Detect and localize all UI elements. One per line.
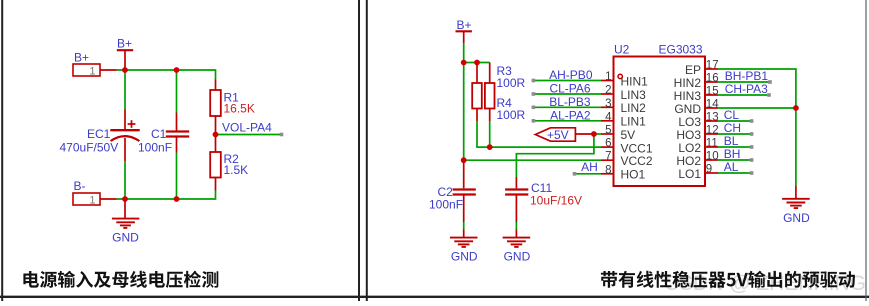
svg-text:CH-PA3: CH-PA3 <box>725 82 768 96</box>
resistor R1 <box>210 80 255 135</box>
RIGHT-PANEL <box>429 18 866 295</box>
svg-text:7: 7 <box>605 151 611 163</box>
junction (593.9,134) <box>591 131 597 137</box>
svg-text:EP: EP <box>685 63 701 77</box>
svg-text:B+: B+ <box>117 37 132 51</box>
label BL-PB3 pin3 wire <box>532 95 601 109</box>
svg-text:6: 6 <box>605 138 611 150</box>
svg-text:LO1: LO1 <box>678 167 701 181</box>
junction (795.9,108) <box>793 105 799 111</box>
junction (463.7,62.5) <box>461 60 467 66</box>
svg-text:LO2: LO2 <box>678 141 701 155</box>
svg-text:EG3033: EG3033 <box>659 43 703 57</box>
label CL pin13 wire <box>718 108 753 123</box>
svg-text:GND: GND <box>112 231 139 245</box>
junction (125,199) <box>122 196 128 202</box>
svg-text:HIN2: HIN2 <box>674 76 702 90</box>
resistor R3 <box>472 63 525 122</box>
svg-text:16.5K: 16.5K <box>224 102 255 116</box>
svg-text:100nF: 100nF <box>138 141 172 155</box>
svg-text:LIN2: LIN2 <box>621 101 647 115</box>
capacitor C2 <box>429 160 476 222</box>
wire C11 to gnd <box>515 222 517 230</box>
capacitor C1 <box>138 113 189 155</box>
svg-text:LO3: LO3 <box>678 115 701 129</box>
svg-text:CL-PA6: CL-PA6 <box>549 82 590 96</box>
resistor R4 <box>485 63 526 123</box>
node VOL-PA4 <box>216 121 284 137</box>
svg-text:100R: 100R <box>497 108 526 122</box>
wire 5V to C11 <box>516 134 594 177</box>
svg-text:CL: CL <box>724 108 740 122</box>
label BH-PB1 pin16 wire <box>718 69 772 84</box>
svg-text:VCC2: VCC2 <box>621 154 653 168</box>
pin numbers right 17-9 <box>706 60 719 176</box>
svg-text:LIN1: LIN1 <box>621 115 647 129</box>
svg-text:4: 4 <box>605 111 612 123</box>
svg-text:EC1: EC1 <box>87 127 111 141</box>
op IC U1 pins left stubs <box>601 81 614 174</box>
svg-text:LIN3: LIN3 <box>621 88 647 102</box>
wire B+ to pin7 VCC2 <box>464 159 601 161</box>
junction (125,70) <box>122 67 128 73</box>
svg-text:BH: BH <box>724 147 741 161</box>
label BL pin11 wire <box>718 134 753 149</box>
junction (215.5,134.5) <box>213 132 219 138</box>
connector J B- <box>73 179 117 206</box>
svg-text:B-: B- <box>74 179 86 193</box>
junction (489.7,147.1) <box>487 144 493 150</box>
svg-text:2: 2 <box>605 85 611 97</box>
svg-text:GND: GND <box>783 211 810 225</box>
LEFT-PANEL <box>23 37 283 288</box>
svg-text:100nF: 100nF <box>429 198 463 212</box>
svg-text:B+: B+ <box>74 51 89 65</box>
svg-text:1: 1 <box>89 65 95 77</box>
svg-text:HIN1: HIN1 <box>621 74 649 88</box>
wire pin14 GND <box>718 107 796 109</box>
resistor R2 <box>210 135 248 191</box>
svg-text:1: 1 <box>89 194 95 206</box>
junction (176.5,70) <box>174 67 180 73</box>
svg-text:100R: 100R <box>497 76 526 90</box>
svg-text:1: 1 <box>605 71 611 83</box>
svg-text:HO3: HO3 <box>676 128 701 142</box>
svg-text:GND: GND <box>674 102 701 116</box>
ground GND (left) <box>112 199 139 245</box>
junction (463.7,160.2) <box>461 157 467 163</box>
svg-text:470uF/50V: 470uF/50V <box>60 141 119 155</box>
svg-text:3: 3 <box>605 98 611 110</box>
svg-text:HO2: HO2 <box>676 154 701 168</box>
wire C1 top <box>176 70 178 113</box>
label CL-PA6 pin2 wire <box>532 82 601 96</box>
svg-text:U2: U2 <box>614 43 630 57</box>
svg-text:B+: B+ <box>457 18 472 32</box>
label AL pin9 wire <box>718 160 753 175</box>
connector J B+ <box>73 51 117 78</box>
wire R4 leg <box>489 121 491 147</box>
junction (477,62.5) <box>474 60 480 66</box>
label AH-PB0 pin1 wire <box>532 68 601 82</box>
label AH pin8 wire <box>573 160 601 176</box>
svg-text:5: 5 <box>605 125 611 137</box>
power symbol B+ (right) <box>456 18 472 43</box>
wire pin17 EP to gnd <box>718 69 796 186</box>
svg-text:HO1: HO1 <box>621 168 646 182</box>
svg-text:AH: AH <box>581 160 598 174</box>
ground GND (IC right) <box>782 186 810 225</box>
wire B+ vertical <box>463 43 465 160</box>
wire EC1 top <box>124 70 126 110</box>
wire R3 R4 to pin6 VCC1 <box>477 121 601 147</box>
wire bottom bus B- <box>117 191 216 200</box>
svg-text:BL-PB3: BL-PB3 <box>549 95 591 109</box>
IC U2 EG3033 body <box>614 43 706 187</box>
svg-text:AH-PB0: AH-PB0 <box>549 68 593 82</box>
pin names right <box>674 63 702 181</box>
svg-text:GND: GND <box>504 250 531 264</box>
capacitor C11 <box>505 177 582 222</box>
label BH pin10 wire <box>718 147 753 162</box>
svg-text:10uF/16V: 10uF/16V <box>530 194 582 208</box>
svg-text:+5V: +5V <box>547 128 569 142</box>
svg-text:8: 8 <box>605 164 611 176</box>
pins right stubs <box>705 69 718 173</box>
svg-text:BH-PB1: BH-PB1 <box>725 69 769 83</box>
wire C2 to gnd <box>463 222 465 230</box>
svg-text:C1: C1 <box>151 127 167 141</box>
svg-text:AL-PA2: AL-PA2 <box>550 108 591 122</box>
wire +5V to pin5 <box>594 133 601 135</box>
label CH pin12 wire <box>718 121 753 136</box>
svg-text:VOL-PA4: VOL-PA4 <box>222 121 272 135</box>
label CH-PA3 pin15 wire <box>718 82 771 97</box>
label AL-PA2 pin4 wire <box>532 108 601 122</box>
pin names left <box>621 74 653 181</box>
wire EC1 bottom <box>124 161 126 199</box>
pin numbers left 1-8 <box>605 71 612 176</box>
wire top bus B+ <box>117 70 216 80</box>
capacitor EC1 <box>60 110 140 162</box>
svg-text:BL: BL <box>724 134 739 148</box>
power label +5V <box>535 128 594 142</box>
caption left <box>23 271 218 288</box>
caption right <box>601 271 855 288</box>
ground GND (C11) <box>503 230 531 264</box>
wire B+ to R3 R4 <box>464 62 490 64</box>
svg-text:AL: AL <box>724 160 739 174</box>
junction (176.5,199) <box>174 196 180 202</box>
svg-text:HIN3: HIN3 <box>674 89 702 103</box>
wire C1 bottom <box>176 153 178 200</box>
svg-text:5V: 5V <box>621 128 636 142</box>
svg-text:1.5K: 1.5K <box>224 163 249 177</box>
power symbol B+ (left) <box>117 37 133 70</box>
ground GND (C2) <box>450 230 478 264</box>
svg-text:GND: GND <box>451 250 478 264</box>
svg-text:CH: CH <box>724 121 741 135</box>
